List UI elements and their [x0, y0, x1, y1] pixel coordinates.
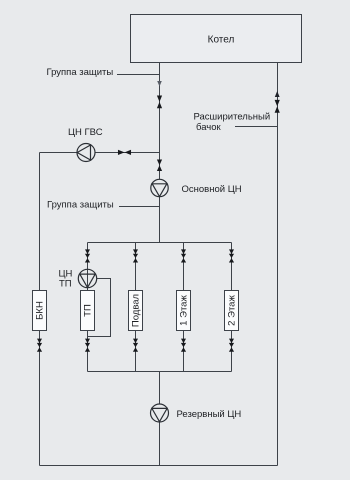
svg-text:2 Этаж: 2 Этаж: [227, 295, 238, 326]
svg-text:Основной ЦН: Основной ЦН: [182, 184, 242, 195]
svg-text:Резервный ЦН: Резервный ЦН: [177, 409, 242, 420]
svg-text:1 Этаж: 1 Этаж: [179, 295, 190, 326]
svg-text:ЦН ГВС: ЦН ГВС: [68, 127, 103, 138]
svg-text:БКН: БКН: [35, 301, 46, 320]
svg-text:Расширительный: Расширительный: [194, 111, 271, 122]
svg-text:Группа защиты: Группа защиты: [47, 200, 114, 211]
svg-text:бачок: бачок: [196, 122, 222, 133]
svg-text:Котел: Котел: [208, 35, 235, 46]
svg-text:ТП: ТП: [59, 278, 72, 289]
svg-text:Группа защиты: Группа защиты: [47, 67, 114, 78]
svg-text:Подвал: Подвал: [131, 294, 142, 327]
svg-text:ТП: ТП: [83, 304, 94, 317]
